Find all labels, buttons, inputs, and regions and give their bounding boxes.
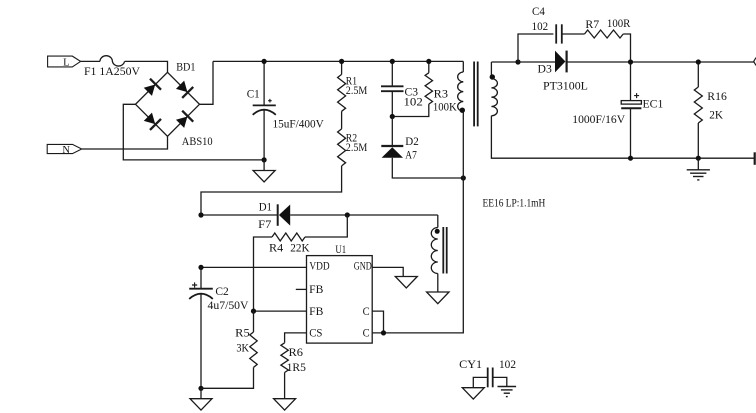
resistor R4 22K: [305, 215, 347, 237]
earth ground right of CY1: [498, 386, 517, 388]
svg-text:D3: D3: [538, 64, 553, 76]
output terminal V+ (edge tag): [754, 58, 756, 66]
svg-text:GND: GND: [354, 261, 372, 273]
resistor R1 2.5M: [341, 61, 343, 74]
ground left of CY1: [462, 388, 484, 399]
wire bridge left vertex to primary-side common rail: [123, 104, 264, 160]
capacitor C4 102: [518, 34, 553, 62]
wire bridge right vertex up to DC+ rail: [200, 61, 214, 104]
resistor R5 3K: [253, 311, 255, 332]
svg-text:C2: C2: [215, 286, 229, 298]
svg-text:L: L: [63, 57, 69, 68]
wire C lower pin to switch node: [372, 178, 463, 333]
svg-text:FB: FB: [309, 306, 324, 318]
IC U1 switcher: [307, 256, 373, 344]
junction dot EC1 bottom: [628, 156, 633, 161]
wire L-tag to fuse: [81, 60, 100, 62]
diode D2 A7: [391, 117, 393, 147]
svg-text:102: 102: [499, 359, 516, 371]
junction dot C pins: [381, 330, 386, 335]
ground below C1: [263, 160, 265, 171]
junction dot switch node: [461, 175, 466, 180]
resistor R6 1R5: [285, 333, 307, 343]
ground below C2: [200, 388, 202, 398]
junction dot secondary top: [515, 59, 520, 64]
capacitor C1: [263, 61, 265, 105]
svg-text:15uF/400V: 15uF/400V: [273, 119, 325, 131]
junction dot R1 top: [339, 59, 344, 64]
junction dot C2 bottom: [198, 386, 203, 391]
svg-text:ABS10: ABS10: [182, 136, 213, 148]
svg-text:VDD: VDD: [309, 261, 329, 273]
ground below aux winding: [427, 292, 449, 304]
junction dot C1 bottom: [262, 157, 267, 162]
capacitor C2 4u7/50V: [200, 267, 202, 288]
fuse F1: [100, 56, 125, 66]
resistor R3 100K: [428, 61, 430, 72]
svg-text:R4: R4: [269, 242, 283, 254]
auxiliary winding: [437, 215, 439, 228]
wire GND pin to ground: [372, 267, 403, 276]
svg-text:FB: FB: [309, 284, 324, 296]
junction dot EC1 top: [628, 59, 633, 64]
ground at GND pin: [395, 277, 417, 288]
svg-text:F7: F7: [258, 219, 271, 231]
svg-text:3K: 3K: [236, 342, 249, 354]
svg-text:R5: R5: [235, 327, 250, 339]
svg-text:R7: R7: [585, 19, 599, 31]
ground below R6: [274, 399, 296, 410]
junction dot R3 top: [426, 59, 431, 64]
wire DC+ top rail: [213, 60, 463, 62]
capacitor C3 102: [391, 61, 393, 86]
svg-text:A7: A7: [405, 149, 417, 161]
aux polarity dot: [435, 229, 440, 234]
transformer primary winding: [462, 61, 464, 72]
junction dot D1 anode node: [345, 212, 350, 217]
svg-text:102: 102: [404, 96, 424, 108]
svg-text:C4: C4: [532, 6, 545, 18]
earth ground below R16: [697, 158, 699, 170]
resistor R7 100R: [585, 30, 624, 38]
resistor R2 2.5M: [338, 129, 346, 166]
primary polarity dot: [460, 108, 465, 113]
svg-text:BD1: BD1: [176, 61, 196, 73]
wire C upper pin: [372, 311, 383, 333]
bridge rectifier BD1 ABS10: [136, 72, 200, 136]
wire FB row: [254, 310, 307, 312]
svg-text:102: 102: [532, 21, 549, 33]
junction dot VDD-R2 node: [198, 212, 203, 217]
svg-text:R16: R16: [707, 91, 727, 103]
diode D1 F7: [201, 214, 277, 216]
terminal N (neutral input tag): [47, 144, 81, 153]
svg-text:C: C: [363, 328, 370, 340]
wire fuse to bridge top vertex: [125, 61, 168, 72]
aux winding core: [442, 227, 444, 274]
svg-text:4u7/50V: 4u7/50V: [208, 300, 250, 312]
svg-text:1000F/16V: 1000F/16V: [572, 114, 625, 126]
junction dot C3-R3-D2 node: [390, 114, 395, 119]
transformer core: [473, 62, 475, 127]
svg-text:R3: R3: [434, 88, 449, 100]
svg-text:C1: C1: [247, 89, 260, 101]
svg-text:CS: CS: [309, 328, 322, 340]
wire R1 to R2: [341, 111, 343, 129]
svg-text:D1: D1: [259, 201, 273, 213]
svg-text:22K: 22K: [290, 242, 310, 254]
wire secondary top to D3 node: [491, 61, 518, 63]
wire VDD row: [201, 266, 307, 268]
capacitor EC1 1000F/16V: [630, 62, 632, 101]
svg-text:F1 1A250V: F1 1A250V: [84, 66, 141, 78]
junction dot R16 top: [696, 59, 701, 64]
svg-text:EE16 LP:1.1mH: EE16 LP:1.1mH: [483, 198, 546, 210]
svg-text:2K: 2K: [709, 110, 723, 122]
svg-text:CY1: CY1: [459, 359, 482, 371]
junction dot C3 top: [390, 59, 395, 64]
svg-text:C: C: [363, 306, 370, 318]
svg-text:U1: U1: [335, 244, 346, 256]
svg-text:R6: R6: [289, 347, 304, 359]
resistor R16 2K: [697, 62, 699, 87]
svg-text:N: N: [62, 145, 70, 156]
secondary polarity dot: [490, 74, 495, 79]
terminal L (live input tag): [48, 56, 81, 67]
svg-text:1R5: 1R5: [287, 362, 307, 374]
junction dot R16 bottom: [696, 156, 701, 161]
wire N-tag to bridge bottom vertex: [82, 136, 168, 149]
svg-text:100K: 100K: [433, 102, 457, 114]
svg-text:2.5M: 2.5M: [346, 142, 368, 154]
pin stub FB upper (n.c.): [296, 288, 307, 290]
transformer secondary winding: [490, 62, 492, 79]
capacitor CY1 102: [487, 368, 489, 388]
svg-text:D2: D2: [405, 136, 419, 148]
diode D3 PT3100L: [518, 61, 555, 63]
svg-text:PT3100L: PT3100L: [543, 80, 588, 92]
junction dot FB-R4-R5 node: [251, 309, 256, 314]
svg-text:EC1: EC1: [643, 98, 664, 110]
svg-text:100R: 100R: [607, 18, 631, 30]
junction dot VDD row: [198, 265, 203, 270]
output terminal V- (edge tag): [754, 152, 756, 165]
svg-text:2.5M: 2.5M: [346, 85, 368, 97]
junction dot C1 top: [262, 59, 267, 64]
